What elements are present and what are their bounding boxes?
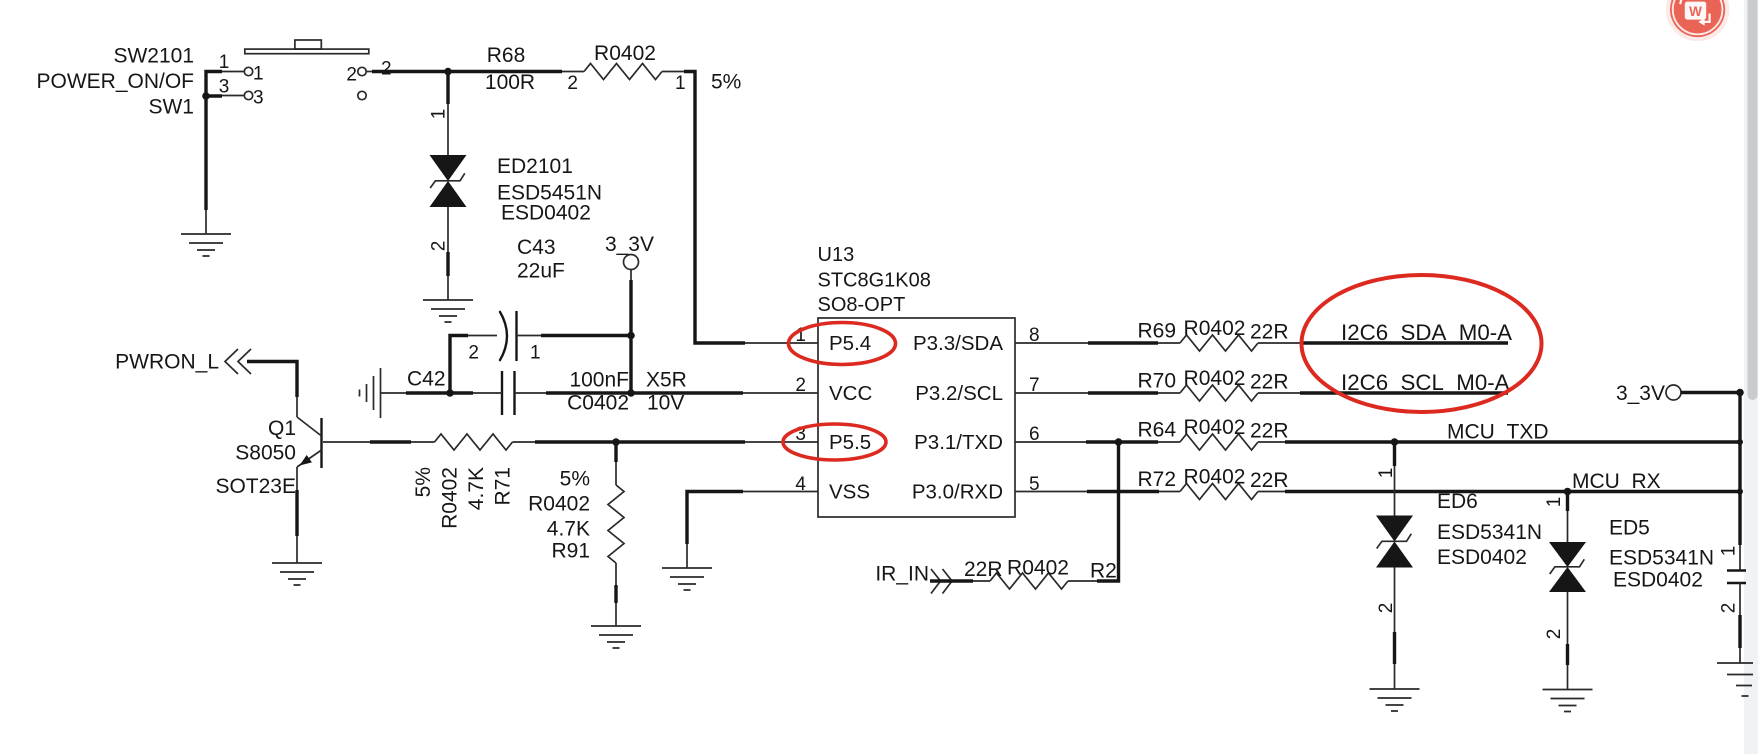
svg-text:2: 2 xyxy=(468,343,479,364)
svg-text:R0402: R0402 xyxy=(1184,317,1246,340)
svg-text:R0402: R0402 xyxy=(528,493,590,516)
svg-text:MCU_TXD: MCU_TXD xyxy=(1447,421,1549,444)
wire R71 to MCU pin3 xyxy=(513,438,819,446)
svg-text:W: W xyxy=(1689,4,1702,19)
svg-text:SOT23E: SOT23E xyxy=(215,475,296,498)
svg-text:P5.5: P5.5 xyxy=(829,431,871,454)
svg-text:ED6: ED6 xyxy=(1437,490,1478,513)
resistor R91 xyxy=(528,442,624,626)
svg-text:22R: 22R xyxy=(1250,420,1289,443)
svg-text:1: 1 xyxy=(1719,546,1740,557)
svg-text:R0402: R0402 xyxy=(439,467,462,529)
svg-text:3: 3 xyxy=(253,88,264,109)
svg-text:R0402: R0402 xyxy=(1184,416,1246,439)
capacitor C42 xyxy=(407,368,687,416)
svg-text:STC8G1K08: STC8G1K08 xyxy=(818,270,931,292)
svg-text:5%: 5% xyxy=(412,467,435,497)
svg-text:ESD0402: ESD0402 xyxy=(501,202,591,225)
power 3_3V (left) xyxy=(605,233,654,397)
power 3_3V (right) xyxy=(1616,382,1744,405)
svg-text:3: 3 xyxy=(219,77,230,98)
svg-text:5%: 5% xyxy=(560,468,590,491)
resistor R72 xyxy=(1015,466,1289,500)
svg-text:R0402: R0402 xyxy=(594,42,656,65)
svg-text:1: 1 xyxy=(675,73,686,94)
svg-text:10V: 10V xyxy=(647,392,684,415)
svg-text:5%: 5% xyxy=(711,71,741,94)
svg-text:22R: 22R xyxy=(964,558,1003,581)
svg-text:P3.0/RXD: P3.0/RXD xyxy=(912,481,1003,504)
svg-text:POWER_ON/OF: POWER_ON/OF xyxy=(36,70,194,93)
resistor R71 xyxy=(412,434,515,529)
svg-text:100R: 100R xyxy=(485,71,535,94)
svg-text:R71: R71 xyxy=(492,467,515,506)
svg-text:1: 1 xyxy=(429,109,450,120)
svg-text:IR_IN: IR_IN xyxy=(875,563,929,586)
svg-text:P5.4: P5.4 xyxy=(829,332,871,355)
ground (Q1) xyxy=(272,563,322,585)
svg-text:R69: R69 xyxy=(1137,320,1176,343)
svg-text:VSS: VSS xyxy=(829,481,870,504)
svg-text:C43: C43 xyxy=(517,236,556,259)
net I2C6_SDA_M0-A xyxy=(1300,320,1512,345)
svg-text:R70: R70 xyxy=(1137,370,1176,393)
svg-text:R0402: R0402 xyxy=(1184,466,1246,489)
svg-text:22R: 22R xyxy=(1250,469,1289,492)
scrollbar thumb xyxy=(1748,0,1758,400)
svg-text:MCU_RX: MCU_RX xyxy=(1572,470,1661,493)
wire 3_3V rail (right edge) xyxy=(1737,393,1743,546)
TVS diode ED2101 xyxy=(429,72,603,301)
svg-text:PWRON_L: PWRON_L xyxy=(115,351,219,374)
svg-text:22R: 22R xyxy=(1250,321,1289,344)
svg-text:2: 2 xyxy=(1544,629,1565,640)
svg-text:1: 1 xyxy=(253,64,264,85)
svg-text:2: 2 xyxy=(346,65,357,86)
wire Q1 base to R71 xyxy=(323,441,435,443)
svg-text:1: 1 xyxy=(1376,468,1397,479)
svg-text:1: 1 xyxy=(530,343,541,364)
svg-text:2: 2 xyxy=(567,73,578,94)
svg-text:3_3V: 3_3V xyxy=(1616,382,1665,405)
svg-text:SW2101: SW2101 xyxy=(113,45,194,68)
svg-text:4.7K: 4.7K xyxy=(547,518,590,541)
switch SW2101 reference labels xyxy=(36,45,194,119)
svg-text:VCC: VCC xyxy=(829,382,872,405)
net MCU_TXD xyxy=(1285,421,1740,444)
svg-text:R72: R72 xyxy=(1137,468,1176,491)
red circle around P5.4 xyxy=(789,323,896,365)
svg-text:P3.2/SCL: P3.2/SCL xyxy=(915,382,1003,405)
transistor Q1 xyxy=(215,417,321,498)
wire R68 pin1 to MCU pin1 xyxy=(684,72,818,344)
svg-text:1: 1 xyxy=(1544,497,1565,508)
capacitor (right edge, partial) xyxy=(1719,545,1747,663)
svg-text:Q1: Q1 xyxy=(268,417,296,440)
svg-text:SW1: SW1 xyxy=(148,96,194,119)
svg-text:22uF: 22uF xyxy=(517,260,565,283)
svg-text:ED5: ED5 xyxy=(1609,517,1650,540)
svg-text:2: 2 xyxy=(381,59,392,80)
port IR_IN xyxy=(875,563,973,594)
wire switch pin2 to R68 xyxy=(372,68,562,76)
ground (right edge, partial) xyxy=(1717,663,1753,696)
svg-text:X5R: X5R xyxy=(646,369,687,392)
svg-text:2: 2 xyxy=(1719,603,1740,614)
svg-text:3_3V: 3_3V xyxy=(605,233,654,256)
svg-text:ESD5341N: ESD5341N xyxy=(1437,521,1542,544)
svg-text:R64: R64 xyxy=(1137,419,1176,442)
svg-text:2: 2 xyxy=(429,241,450,252)
svg-text:22R: 22R xyxy=(1250,371,1289,394)
ground (ED6) xyxy=(1370,689,1420,711)
svg-text:SO8-OPT: SO8-OPT xyxy=(818,294,906,316)
svg-text:R91: R91 xyxy=(551,540,590,563)
floating app icon xyxy=(1666,0,1730,41)
svg-text:P3.1/TXD: P3.1/TXD xyxy=(914,431,1003,454)
svg-text:1: 1 xyxy=(219,52,230,73)
svg-text:I2C6_SDA_M0-A: I2C6_SDA_M0-A xyxy=(1341,320,1512,345)
svg-text:C42: C42 xyxy=(407,368,446,391)
svg-text:I2C6_SCL_M0-A: I2C6_SCL_M0-A xyxy=(1341,370,1510,395)
switch SW2101 xyxy=(202,40,391,210)
svg-text:R68: R68 xyxy=(487,44,526,67)
svg-text:ESD0402: ESD0402 xyxy=(1437,546,1527,569)
wire Q1 emitter to ground xyxy=(296,467,298,563)
ground (ED5) xyxy=(1543,690,1593,712)
net MCU_RX xyxy=(1285,470,1740,493)
svg-text:U13: U13 xyxy=(818,244,855,266)
svg-text:R0402: R0402 xyxy=(1007,557,1069,580)
TVS diode ED5 xyxy=(1544,488,1714,690)
scrollbar track xyxy=(1744,0,1758,754)
svg-text:100nF: 100nF xyxy=(569,369,629,392)
svg-text:ESD0402: ESD0402 xyxy=(1613,569,1703,592)
TVS diode ED6 xyxy=(1376,438,1542,689)
svg-text:2: 2 xyxy=(795,375,806,396)
capacitor C43 xyxy=(450,236,635,393)
svg-text:R0402: R0402 xyxy=(1184,367,1246,390)
svg-text:C0402: C0402 xyxy=(567,392,629,415)
svg-text:4.7K: 4.7K xyxy=(465,467,488,510)
wire MCU pin4 (VSS) to ground xyxy=(687,492,818,569)
resistor R68 xyxy=(485,42,741,94)
svg-text:2: 2 xyxy=(1376,603,1397,614)
svg-text:S8050: S8050 xyxy=(235,442,296,465)
IC U13 xyxy=(795,244,1039,517)
svg-text:ESD5341N: ESD5341N xyxy=(1609,547,1714,570)
ground (switch) xyxy=(181,210,231,256)
port PWRON_L xyxy=(115,349,297,417)
red circle around P5.5 xyxy=(783,424,886,460)
ground (R91) xyxy=(591,626,641,648)
net I2C6_SCL_M0-A xyxy=(1300,370,1510,395)
svg-text:P3.3/SDA: P3.3/SDA xyxy=(913,332,1003,355)
red ellipse around I2C6 nets xyxy=(1302,275,1542,412)
resistor R64 xyxy=(1015,416,1289,450)
wire C42 row / VCC net xyxy=(381,389,819,397)
resistor R2 xyxy=(964,557,1117,590)
svg-text:ED2101: ED2101 xyxy=(497,155,573,178)
resistor R69 xyxy=(1015,317,1300,351)
svg-text:R2: R2 xyxy=(1090,560,1117,583)
resistor R70 xyxy=(1015,367,1300,401)
wire R2 to P3.1/TXD net xyxy=(1097,442,1119,581)
ground (C42 left, rotated) xyxy=(360,368,381,418)
ground (ED2101) xyxy=(423,300,473,322)
ground (VSS) xyxy=(662,568,712,590)
